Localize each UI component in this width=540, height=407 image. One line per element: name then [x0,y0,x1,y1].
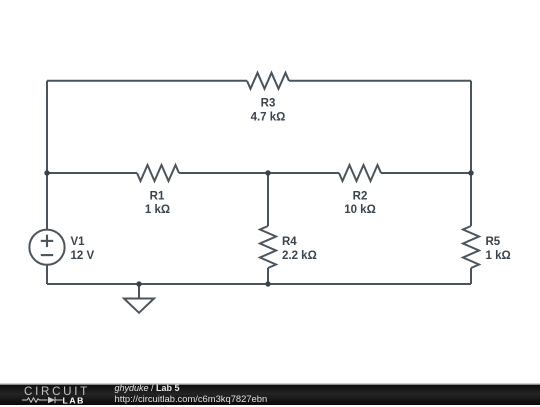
svg-text:R2: R2 [353,191,368,203]
svg-text:R4: R4 [282,236,297,248]
svg-text:R3: R3 [261,97,276,109]
svg-text:LAB: LAB [63,396,85,406]
svg-text:1 kΩ: 1 kΩ [145,204,170,216]
svg-text:V1: V1 [71,236,86,248]
svg-text:2.2 kΩ: 2.2 kΩ [282,250,317,262]
svg-text:4.7 kΩ: 4.7 kΩ [251,111,286,123]
svg-text:R5: R5 [486,236,501,248]
svg-text:12 V: 12 V [71,250,95,262]
svg-text:1 kΩ: 1 kΩ [486,250,511,262]
svg-text:R1: R1 [150,191,165,203]
svg-text:10 kΩ: 10 kΩ [344,204,376,216]
